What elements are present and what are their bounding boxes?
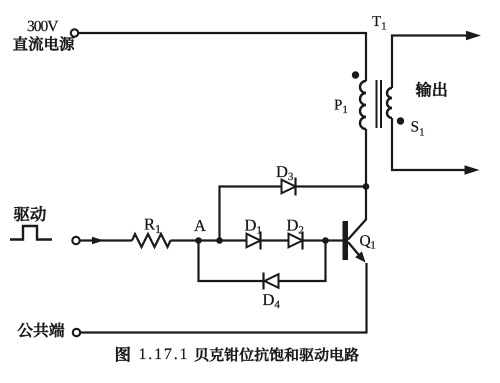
junction dot: collector node bbox=[363, 183, 370, 190]
resistor R1 bbox=[132, 234, 171, 247]
junction dot: D3 riser bbox=[216, 237, 223, 244]
svg-text:300V: 300V bbox=[27, 18, 59, 35]
wire: secondary top lead bbox=[392, 36, 467, 89]
svg-text:1.17.1: 1.17.1 bbox=[139, 346, 190, 363]
wire: primary bottom lead to collector node bbox=[365, 129, 367, 220]
label 公共端 (common terminal) bbox=[18, 323, 64, 338]
transformer core bbox=[377, 80, 382, 128]
node A junction dot bbox=[195, 237, 202, 244]
wire: transformer primary top lead bbox=[365, 32, 367, 81]
label 输出 (output) bbox=[416, 82, 447, 97]
svg-text:Q1: Q1 bbox=[360, 233, 376, 252]
svg-text:D3: D3 bbox=[276, 162, 294, 183]
junction dot: base node bbox=[322, 237, 329, 244]
svg-text:T1: T1 bbox=[372, 14, 387, 33]
transformer T1 primary winding P1 bbox=[360, 81, 366, 129]
wire: common rail bbox=[81, 331, 368, 333]
transistor Q1 emitter arrow bbox=[355, 251, 365, 262]
output arrow top bbox=[466, 31, 481, 40]
polarity dot: primary bbox=[352, 71, 359, 78]
drive pulse waveform symbol bbox=[10, 226, 52, 240]
label 驱动 (drive) bbox=[14, 206, 46, 221]
svg-text:P1: P1 bbox=[334, 98, 348, 117]
wire: R1 to D1 bbox=[171, 239, 247, 241]
transformer T1 secondary winding S1 bbox=[387, 88, 392, 118]
caption 图 (figure) bbox=[116, 347, 130, 362]
transistor Q1 collector lead bbox=[348, 220, 366, 240]
terminal: drive input bbox=[72, 237, 79, 244]
caption 贝克钳位抗饱和驱动电路 (Baker clamp anti-saturation drive circuit) bbox=[195, 348, 359, 362]
input signal arrow bbox=[92, 237, 104, 245]
diode D1 bbox=[247, 232, 261, 250]
svg-text:R1: R1 bbox=[144, 215, 161, 237]
diode D3 bbox=[282, 178, 296, 196]
wire: riser from node to D3 branch bbox=[220, 187, 282, 241]
transistor Q1 base bar bbox=[343, 221, 349, 260]
wire: D4 bypass branch bbox=[199, 241, 326, 282]
label 直流电源 (DC supply) bbox=[13, 36, 74, 50]
svg-text:A: A bbox=[194, 216, 206, 235]
svg-text:D2: D2 bbox=[287, 216, 304, 237]
transistor Q1 emitter lead bbox=[348, 242, 359, 255]
wire: emitter to common rail bbox=[365, 263, 367, 333]
wire: D3 to collector node bbox=[296, 185, 367, 187]
wire: top supply rail bbox=[79, 32, 366, 34]
wire: input lead bbox=[81, 239, 133, 241]
diode D2 bbox=[289, 232, 303, 250]
wire: D1 to D2 bbox=[261, 239, 289, 241]
output arrow bottom bbox=[465, 165, 480, 174]
svg-text:S1: S1 bbox=[411, 119, 425, 139]
wire: D2 to base bbox=[303, 239, 343, 241]
wire: secondary bottom lead bbox=[392, 118, 465, 170]
diode D4 bbox=[264, 273, 279, 290]
svg-text:D4: D4 bbox=[263, 290, 281, 311]
terminal: common bbox=[73, 329, 80, 336]
polarity dot: secondary bbox=[397, 117, 404, 124]
terminal: 300V DC supply input bbox=[71, 29, 78, 36]
svg-text:D1: D1 bbox=[245, 216, 262, 237]
